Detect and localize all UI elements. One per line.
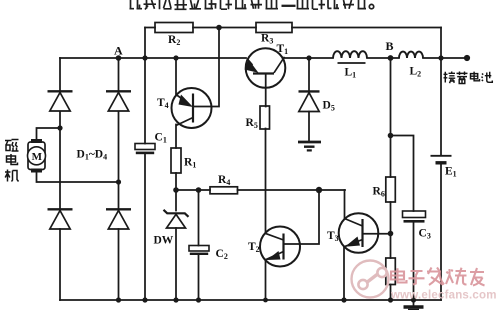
- glyph 电: [7, 154, 18, 165]
- magneto motor M: [28, 139, 46, 173]
- wire node A column x=118.5: [118, 58, 120, 300]
- svg-text:B: B: [386, 39, 394, 53]
- glyph 电: [471, 72, 480, 81]
- node B dot: [388, 55, 394, 61]
- wire T2 emitter down: [265, 260, 267, 300]
- node dot rail/E1: [438, 55, 443, 60]
- node dot C2 top: [196, 187, 202, 193]
- node dot rail/D5: [306, 55, 311, 60]
- svg-text:M: M: [32, 151, 43, 163]
- glyph 磁: [5, 141, 12, 151]
- ground symbol below D5: [298, 142, 321, 150]
- wire B/R6 column x=390.5: [390, 58, 392, 300]
- wire T1 emitter to R5 and down to T2: [265, 74, 267, 234]
- watermark logo circle: [352, 261, 389, 298]
- node dot R6/T3 base: [388, 231, 394, 237]
- wire D5 column x=309: [308, 58, 310, 141]
- wire T4 collector to top bus x=219: [193, 28, 219, 107]
- node dot R1/DW: [173, 187, 179, 193]
- resistor R2: [155, 23, 193, 33]
- wire C1 column x=145 with top corner: [144, 28, 146, 301]
- wire T4 emitter column x=176: [175, 58, 177, 95]
- wire main rail y=58 left section (corner to T1): [60, 57, 246, 59]
- diode D4 bridge bottom-right: [106, 209, 131, 229]
- wire main rail y=58 T1 to L1: [285, 57, 334, 59]
- diode D2 bridge top-right: [106, 91, 131, 111]
- wire node to T3 collector x=344.5: [344, 190, 346, 219]
- glyph 烧: [446, 269, 453, 284]
- ground symbol below C3 at bottom edge: [404, 307, 424, 310]
- glyph 机: [5, 170, 11, 182]
- inductor L2: [399, 52, 423, 58]
- glyph 友: [470, 268, 485, 286]
- node dot motor top tap: [57, 125, 62, 130]
- node dot R6/C3 branch: [388, 133, 394, 139]
- resistor R5: [260, 106, 270, 129]
- svg-text:DW: DW: [154, 235, 174, 247]
- transistor T1: [245, 48, 286, 88]
- transistor T4: [172, 88, 212, 128]
- svg-text:www.elecfans.com: www.elecfans.com: [390, 290, 497, 302]
- wire main rail y=58 L2 to battery terminal: [423, 57, 467, 59]
- diode D1 bridge top-left: [48, 91, 73, 111]
- wire left column x=60: [59, 58, 61, 300]
- inductor L1 with core bar: [333, 51, 367, 63]
- wire C3 branch: [391, 136, 414, 301]
- wire C2 column x=198.5: [198, 190, 200, 300]
- resistor R1: [171, 148, 181, 173]
- bottom rail dots: [116, 297, 121, 302]
- diode D5: [299, 91, 320, 111]
- capacitor C2: [189, 246, 209, 256]
- watermark text 电子发烧友: [391, 268, 485, 286]
- wire magneto top lead: [37, 128, 61, 139]
- capacitor C3: [403, 211, 426, 223]
- wire ground stub below C3: [413, 300, 415, 306]
- wire magneto bottom lead: [37, 173, 119, 183]
- wire T3 base to R6 column: [363, 233, 391, 235]
- node A dot: [116, 55, 122, 61]
- svg-text:A: A: [114, 44, 123, 58]
- glyph 接: [444, 72, 448, 83]
- wire node row y=190: [176, 189, 345, 191]
- transistor T2: [260, 227, 300, 267]
- glyph 池: [482, 74, 484, 82]
- wire T3 emitter down: [343, 247, 345, 300]
- caption text top edge (partially cropped Chinese sentence): [130, 0, 374, 10]
- wire bottom rail y=300: [60, 299, 441, 301]
- wire DW column: [175, 190, 177, 300]
- glyph 电: [391, 268, 407, 282]
- transistor T3: [339, 213, 379, 253]
- node dot motor bottom tap: [116, 179, 121, 184]
- wire T4 to R1: [175, 125, 177, 149]
- node dot R4 output: [316, 187, 322, 193]
- battery E1: [431, 156, 452, 163]
- glyph 蓄: [457, 72, 468, 84]
- wire main rail y=58 L1 to B: [367, 57, 399, 59]
- capacitor C1: [135, 144, 155, 155]
- svg-text:D1~D4: D1~D4: [77, 149, 108, 162]
- node dot rail/T4: [173, 55, 178, 60]
- resistor R4: [210, 187, 238, 194]
- wire top bus y=27.5 from C1 column to E1 column: [145, 27, 441, 29]
- text label 接蓄电池 (to storage battery): [444, 72, 493, 84]
- resistor R3: [256, 23, 292, 33]
- node dot rail/C1: [142, 55, 147, 60]
- resistor R7 unlabeled lower box: [386, 258, 396, 285]
- glyph 发: [427, 268, 444, 286]
- wire R1 to node y=190: [175, 173, 177, 190]
- resistor R6: [386, 177, 396, 202]
- zener diode DW: [164, 210, 189, 228]
- text label 磁电机 (magneto) vertical: [5, 140, 19, 182]
- battery terminal dot: [464, 55, 470, 61]
- wire T2 base to node: [284, 190, 320, 244]
- wire E1 column x=441: [440, 28, 442, 301]
- glyph 子: [409, 271, 425, 285]
- node dot top bus R2-R3: [216, 25, 222, 31]
- diode D3 bridge bottom-left: [48, 209, 73, 229]
